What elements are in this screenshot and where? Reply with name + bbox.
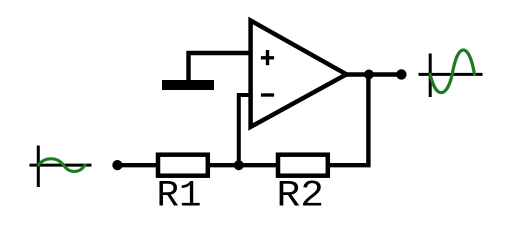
wire non-inverting input stub	[189, 53, 251, 80]
wire node A up to inverting input	[239, 95, 251, 165]
node A: inverting input junction dot	[234, 160, 244, 170]
op-amp U1 triangle	[251, 21, 347, 127]
svg-text:R1: R1	[157, 176, 202, 218]
input waveform sine (green)	[38, 159, 85, 172]
input waveform vertical axis	[37, 146, 40, 188]
wire op-amp output	[345, 72, 401, 76]
wire R1 to R2 through node A	[210, 163, 276, 167]
output waveform sine (green, inverted and amplified)	[430, 50, 474, 93]
wire input terminal to R1	[117, 163, 157, 167]
output terminal dot	[396, 69, 406, 79]
node B: output junction dot	[364, 70, 374, 80]
wire R2 to feedback corner	[330, 75, 368, 166]
output waveform vertical axis	[429, 54, 432, 98]
resistor R2	[278, 155, 328, 176]
resistor R1	[158, 155, 208, 176]
output waveform horizontal axis	[419, 73, 483, 76]
op-amp minus input symbol	[261, 93, 274, 96]
input waveform horizontal axis	[30, 164, 92, 167]
svg-text:R2: R2	[277, 176, 325, 218]
op-amp plus input symbol	[261, 50, 274, 65]
input terminal dot	[112, 160, 122, 170]
ground bar	[162, 80, 214, 90]
